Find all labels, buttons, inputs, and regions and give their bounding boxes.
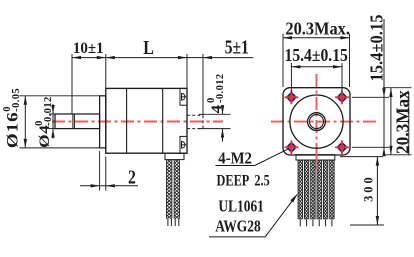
- svg-text:20.3Max: 20.3Max: [392, 90, 412, 154]
- svg-text:-0.05: -0.05: [11, 88, 22, 112]
- svg-text:UL1061: UL1061: [218, 197, 263, 216]
- svg-text:2: 2: [128, 166, 136, 188]
- svg-text:15.4±0.15: 15.4±0.15: [285, 45, 348, 65]
- svg-text:Ø4: Ø4: [37, 124, 53, 147]
- svg-text:-0.012: -0.012: [215, 73, 226, 103]
- svg-text:-0.012: -0.012: [43, 96, 54, 126]
- svg-text:300: 300: [361, 174, 375, 202]
- svg-text:DEEP: DEEP: [217, 172, 250, 190]
- svg-text:10±1: 10±1: [73, 40, 104, 58]
- svg-text:2.5: 2.5: [254, 172, 269, 190]
- svg-text:Ø16: Ø16: [3, 111, 21, 148]
- svg-text:L: L: [143, 36, 154, 58]
- svg-text:5±1: 5±1: [225, 36, 249, 58]
- svg-text:4: 4: [209, 104, 225, 113]
- svg-text:AWG28: AWG28: [215, 217, 261, 236]
- svg-text:20.3Max.: 20.3Max.: [285, 19, 350, 39]
